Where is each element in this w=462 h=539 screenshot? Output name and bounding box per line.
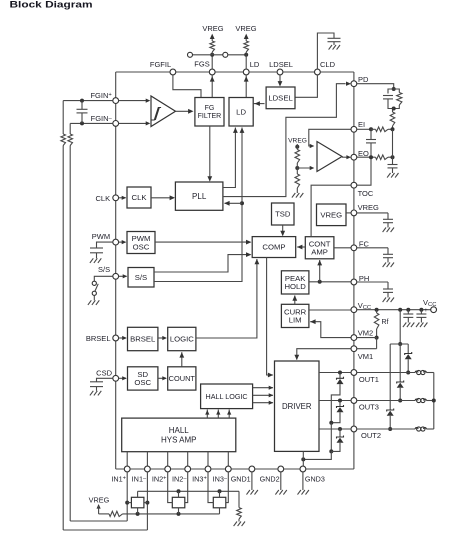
svg-text:S/S: S/S bbox=[135, 273, 147, 282]
svg-text:VREG: VREG bbox=[358, 203, 379, 212]
svg-text:BRSEL: BRSEL bbox=[130, 335, 156, 344]
svg-text:CLK: CLK bbox=[96, 194, 111, 203]
svg-text:AMP: AMP bbox=[311, 248, 328, 257]
svg-text:CLD: CLD bbox=[320, 60, 336, 69]
svg-text:Block Diagram: Block Diagram bbox=[10, 0, 93, 10]
svg-text:LIM: LIM bbox=[289, 316, 302, 325]
svg-text:VREG: VREG bbox=[235, 24, 256, 33]
svg-text:TSD: TSD bbox=[275, 210, 291, 219]
svg-text:DRIVER: DRIVER bbox=[282, 402, 312, 411]
svg-text:FGFIL: FGFIL bbox=[150, 60, 171, 69]
svg-text:COUNT: COUNT bbox=[169, 374, 196, 383]
svg-text:VM1: VM1 bbox=[358, 352, 373, 361]
svg-text:TOC: TOC bbox=[358, 189, 374, 198]
svg-text:LD: LD bbox=[250, 60, 260, 69]
svg-text:CSD: CSD bbox=[96, 368, 112, 377]
svg-text:FG: FG bbox=[205, 105, 215, 112]
svg-text:+: + bbox=[424, 307, 428, 314]
svg-text:OUT3: OUT3 bbox=[359, 403, 379, 412]
svg-text:FILTER: FILTER bbox=[198, 113, 222, 120]
svg-text:VREG: VREG bbox=[202, 24, 223, 33]
svg-text:PLL: PLL bbox=[192, 192, 207, 201]
svg-text:VM2: VM2 bbox=[358, 328, 373, 337]
svg-text:OSC: OSC bbox=[133, 242, 150, 251]
svg-text:LOGIC: LOGIC bbox=[170, 335, 194, 344]
svg-text:EI: EI bbox=[358, 120, 365, 129]
svg-text:HALL: HALL bbox=[169, 426, 190, 435]
svg-text:GND1: GND1 bbox=[231, 474, 251, 483]
svg-text:PWM: PWM bbox=[92, 232, 110, 241]
svg-text:LD: LD bbox=[236, 107, 246, 116]
svg-text:GND3: GND3 bbox=[305, 474, 325, 483]
svg-text:BRSEL: BRSEL bbox=[86, 334, 111, 343]
svg-text:LDSEL: LDSEL bbox=[268, 94, 293, 103]
svg-text:VREG: VREG bbox=[89, 495, 110, 504]
svg-text:PD: PD bbox=[358, 75, 369, 84]
svg-text:OUT2: OUT2 bbox=[361, 431, 381, 440]
svg-text:FGS: FGS bbox=[194, 59, 209, 68]
svg-text:OUT1: OUT1 bbox=[359, 375, 379, 384]
svg-text:HOLD: HOLD bbox=[284, 282, 306, 291]
svg-text:VREG: VREG bbox=[320, 210, 342, 219]
svg-text:OSC: OSC bbox=[134, 378, 151, 387]
svg-text:CLK: CLK bbox=[132, 193, 148, 202]
svg-text:FC: FC bbox=[359, 240, 370, 249]
svg-text:HALL LOGIC: HALL LOGIC bbox=[206, 392, 248, 401]
svg-text:COMP: COMP bbox=[262, 243, 285, 252]
svg-text:LDSEL: LDSEL bbox=[269, 60, 293, 69]
svg-text:VREG: VREG bbox=[288, 138, 307, 145]
svg-text:HYS AMP: HYS AMP bbox=[161, 435, 197, 444]
svg-text:GND2: GND2 bbox=[260, 474, 280, 483]
svg-text:S/S: S/S bbox=[98, 265, 110, 274]
svg-text:Rf: Rf bbox=[382, 319, 389, 326]
